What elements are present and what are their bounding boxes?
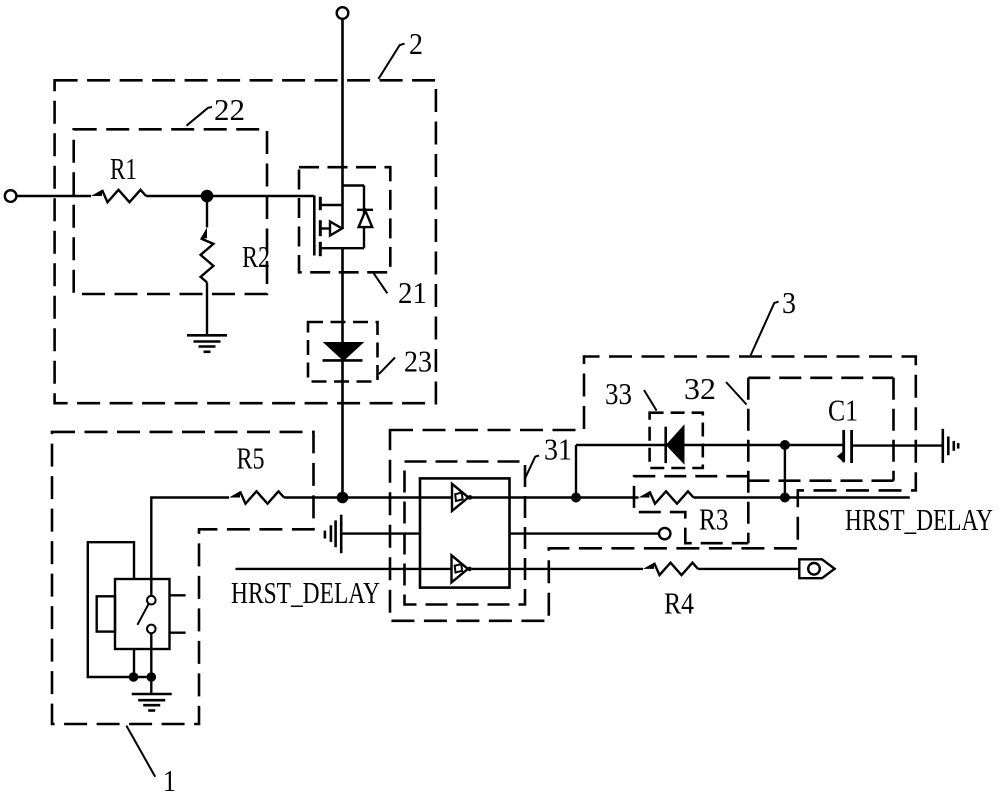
ground right (rotated)	[943, 429, 958, 463]
leader line 31	[525, 456, 539, 480]
leader line 32	[726, 382, 747, 405]
resistor R2 arrowhead	[201, 227, 207, 238]
svg-text:R4: R4	[664, 586, 694, 621]
diode D3 cathode bar	[664, 427, 667, 463]
transistor Q1 drain connection	[320, 204, 342, 206]
wire buffer1 output to node J2	[468, 496, 638, 498]
switch right pin stubs	[170, 594, 186, 596]
wire Q1 top to body diode	[343, 184, 365, 186]
leader line 2	[378, 44, 404, 79]
svg-text:R2: R2	[242, 239, 270, 274]
svg-text:HRST_DELAY: HRST_DELAY	[845, 502, 993, 537]
resistor resistor R5 zigzag	[240, 491, 284, 503]
wire diode D2 to node J1	[341, 360, 344, 497]
switch body rectangle	[115, 579, 170, 649]
terminal left (input)	[5, 190, 17, 202]
dashed box 33 (diode D block)	[650, 413, 703, 468]
leader line 23	[379, 358, 395, 375]
transistor Q1 substrate arrow	[330, 222, 342, 236]
terminal top (power input)	[337, 7, 349, 19]
leader line 1	[126, 726, 155, 777]
svg-text:R5: R5	[237, 441, 265, 476]
switch bottom contact circle	[147, 625, 156, 634]
body diode cathode bar	[357, 209, 373, 211]
svg-text:R1: R1	[110, 151, 137, 186]
diode D2 cathode bar	[323, 359, 363, 362]
node J4 dot	[780, 493, 790, 503]
wire HRST_DELAY left to buffer2 input	[236, 568, 452, 570]
switch lever	[137, 603, 149, 625]
node J3 dot (top)	[780, 440, 790, 450]
wire diode D3 to C1	[684, 444, 844, 446]
wire main vertical drain	[341, 19, 344, 229]
dashed box 3 (delay block, stepped outline)	[390, 357, 916, 621]
leader line 3	[751, 302, 779, 356]
node dot right under switch	[147, 672, 157, 682]
transistor Q1 channel segments	[319, 197, 322, 256]
dashed box 2 (outer top-left block)	[55, 80, 436, 403]
buffer 2 hysteresis mark	[455, 564, 462, 572]
dashed box 1 (switch block, stepped outline)	[52, 432, 314, 724]
svg-text:22: 22	[214, 92, 245, 127]
dashed box 31 (buffer block)	[405, 462, 526, 605]
node J2 dot	[571, 493, 581, 503]
pointer terminal outline	[799, 559, 834, 578]
leader line 33	[644, 390, 657, 411]
wire middle ground to IC	[341, 532, 420, 534]
buffer 1 hysteresis mark	[455, 493, 462, 501]
node dot left under switch	[129, 672, 139, 682]
wire IC to open terminal	[510, 532, 660, 534]
transistor Q1 gate plate	[313, 196, 316, 256]
capacitor C1 polarity mark	[837, 451, 844, 463]
svg-text:21: 21	[398, 275, 427, 310]
buffer IC rectangle U1	[420, 478, 510, 587]
resistor resistor R4 zigzag	[654, 563, 698, 575]
svg-text:C1: C1	[828, 393, 858, 428]
wire switch body bottom down	[133, 649, 135, 677]
terminal open circle middle	[659, 528, 670, 539]
wire R5 to buffer input	[284, 496, 452, 498]
wire R3 to node J4 and HRST_DELAY right	[694, 496, 910, 498]
resistor R1 arrowhead	[91, 190, 102, 196]
wire buffer2 output to R4	[468, 568, 643, 570]
svg-text:23: 23	[404, 344, 432, 379]
diode D2 triangle (filled)	[324, 343, 363, 361]
body diode triangle	[359, 211, 373, 227]
wire R1 to gate	[146, 195, 314, 197]
node junction R1/R2	[201, 190, 214, 203]
wire R4 to pointer terminal	[698, 568, 799, 570]
wire Q1 source down to diode D2	[341, 248, 344, 343]
transistor Q1 substrate lead	[320, 227, 331, 229]
resistor resistor R1 zigzag	[102, 190, 146, 202]
switch top contact circle	[147, 596, 156, 605]
wire R2 to ground	[206, 282, 208, 335]
wire between dots	[134, 676, 152, 678]
resistor R5 arrowhead	[229, 491, 240, 497]
wire junction down to R2	[206, 196, 208, 227]
dashed box 21 (MOSFET block)	[299, 167, 390, 272]
buffer 2 output dot	[467, 567, 472, 572]
svg-text:2: 2	[409, 26, 423, 61]
node J1 dot	[337, 492, 349, 504]
switch left lobe rectangle	[97, 596, 115, 631]
svg-text:32: 32	[684, 371, 716, 406]
dashed box 32 (RC block)	[634, 378, 894, 543]
buffer 1 triangle	[452, 484, 468, 511]
ground below R2	[187, 335, 227, 352]
resistor R4 arrowhead	[643, 563, 654, 569]
capacitor C1 left plate	[842, 430, 845, 462]
svg-text:33: 33	[605, 376, 632, 411]
dashed box 23 (diode block)	[308, 322, 378, 382]
wire node up to diode D3	[576, 444, 666, 446]
svg-text:R3: R3	[699, 502, 729, 537]
wire switch bottom down	[150, 633, 152, 694]
wire node J2 up	[575, 445, 577, 498]
capacitor C1 right plate	[850, 430, 853, 463]
ground below switch	[132, 694, 172, 711]
wire switch top up to R5	[151, 498, 229, 597]
resistor R3 arrowhead	[639, 491, 650, 497]
wire C1 to right ground	[852, 444, 943, 446]
dashed box 22 (R1/R2 divider block)	[74, 129, 267, 294]
buffer 2 triangle	[452, 555, 468, 582]
leader line 21	[374, 273, 388, 293]
wire left input to R1	[16, 195, 91, 197]
body diode branch wire	[363, 186, 365, 249]
svg-text:1: 1	[163, 763, 176, 795]
switch loop wire	[88, 542, 134, 677]
transistor Q1 source connection	[320, 247, 364, 249]
pointer terminal circle	[808, 563, 820, 575]
svg-text:31: 31	[544, 432, 572, 467]
resistor resistor R3 zigzag	[650, 491, 694, 503]
diode D3 triangle (filled, pointing left)	[667, 426, 685, 464]
resistor resistor R2 zigzag	[201, 238, 214, 282]
ground middle-left (rotated)	[325, 515, 341, 554]
wire node J4 up to node J3	[784, 445, 786, 498]
buffer 1 output dot	[468, 495, 473, 500]
svg-text:HRST_DELAY: HRST_DELAY	[231, 575, 380, 610]
svg-text:3: 3	[782, 285, 796, 320]
leader line 22	[187, 107, 213, 126]
